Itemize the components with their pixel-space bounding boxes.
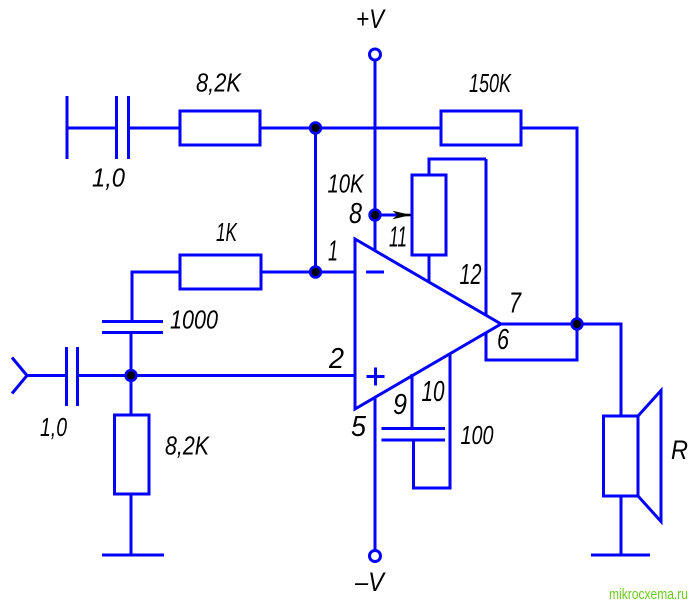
svg-text:6: 6 <box>497 324 510 356</box>
ground (bottom-left) <box>102 554 164 557</box>
capacitor C3 1,0 (bottom-left) <box>67 347 78 406</box>
svg-text:10: 10 <box>422 376 445 408</box>
wire pin 12 through to pin 6 loop <box>486 159 577 360</box>
op-amp U1 triangle <box>355 239 501 409</box>
wire node B down to R 8,2K <box>130 376 133 416</box>
capacitor C1 1,0 (top-left) <box>117 96 129 159</box>
wire pot top to pin 12 line <box>429 159 486 175</box>
potentiometer 10K body <box>412 175 446 255</box>
wire C4 loop to op-amp pin 10 <box>414 353 451 488</box>
svg-text:2: 2 <box>328 343 344 375</box>
svg-text:1000: 1000 <box>170 305 218 335</box>
wiper arrow (black) <box>393 211 414 219</box>
resistor 8,2K (top) <box>180 111 260 145</box>
svg-text:R: R <box>671 435 688 465</box>
resistor 1K <box>180 255 261 289</box>
wire terminal to C1 <box>67 127 115 130</box>
resistor 150K <box>441 111 521 145</box>
minus sign (inverting input) <box>366 271 384 274</box>
svg-text:150K: 150K <box>469 68 512 98</box>
node C junction (output) <box>572 319 583 330</box>
svg-text:12: 12 <box>460 259 482 291</box>
svg-text:5: 5 <box>351 411 367 443</box>
node A junction (top) <box>310 123 321 134</box>
wire pot bottom to op-amp top edge (pin 11) <box>428 255 431 282</box>
wire node A down to node 1 <box>314 128 317 272</box>
speaker R body <box>604 416 639 496</box>
output wire pin 7 to speaker <box>501 324 621 416</box>
svg-text:8,2K: 8,2K <box>196 68 242 98</box>
wire C1 to R top 8,2K <box>129 127 181 130</box>
resistor 8,2K (bottom) <box>115 415 150 494</box>
svg-text:10K: 10K <box>328 169 365 199</box>
wire 150K to feedback drop <box>521 128 577 324</box>
svg-text:1,0: 1,0 <box>92 163 125 193</box>
wire 1K left to C2 <box>132 272 180 321</box>
ground (bottom-right) <box>591 554 650 557</box>
svg-text:1,0: 1,0 <box>40 412 67 442</box>
power terminal +V circle <box>370 49 381 60</box>
svg-text:100: 100 <box>461 420 494 450</box>
svg-text:8: 8 <box>349 198 362 230</box>
svg-text:+V: +V <box>356 4 386 34</box>
wire op-amp pin 9 to C4 <box>411 374 414 428</box>
plus sign (non-inverting input) <box>367 368 385 386</box>
capacitor C4 100 <box>382 429 446 441</box>
capacitor C2 1000 <box>102 322 163 333</box>
input terminal bar (top-left open terminal) <box>66 96 69 159</box>
svg-text:mikrocxema.ru: mikrocxema.ru <box>609 586 688 602</box>
svg-text:–V: –V <box>354 567 386 597</box>
svg-text:9: 9 <box>393 389 407 421</box>
svg-text:11: 11 <box>389 222 407 254</box>
wiper wire node 8 to potentiometer <box>380 214 398 217</box>
node B junction <box>126 370 137 381</box>
wire 8,2K to 150K across +V line <box>260 127 441 130</box>
svg-text:8,2K: 8,2K <box>165 431 210 461</box>
wire 8,2K to ground <box>130 494 133 555</box>
node 1 junction <box>310 267 321 278</box>
power terminal -V circle <box>370 551 381 562</box>
svg-text:1: 1 <box>328 236 338 268</box>
wire +V down to op-amp pin 8 <box>374 61 377 252</box>
speaker cone <box>638 391 661 522</box>
node 8 junction <box>370 210 381 221</box>
wire C3 to op-amp pin 2 <box>78 374 356 377</box>
wire C2 to node B <box>130 333 133 376</box>
wire speaker to ground <box>620 496 623 555</box>
wire input to C3 <box>26 374 65 377</box>
svg-text:1K: 1K <box>216 217 238 247</box>
wire 1K to op-amp pin 1 <box>261 271 355 274</box>
svg-text:7: 7 <box>509 288 522 320</box>
input terminal chevron (bottom-left) <box>12 358 27 394</box>
wire op-amp pin 5 to -V <box>374 397 377 550</box>
